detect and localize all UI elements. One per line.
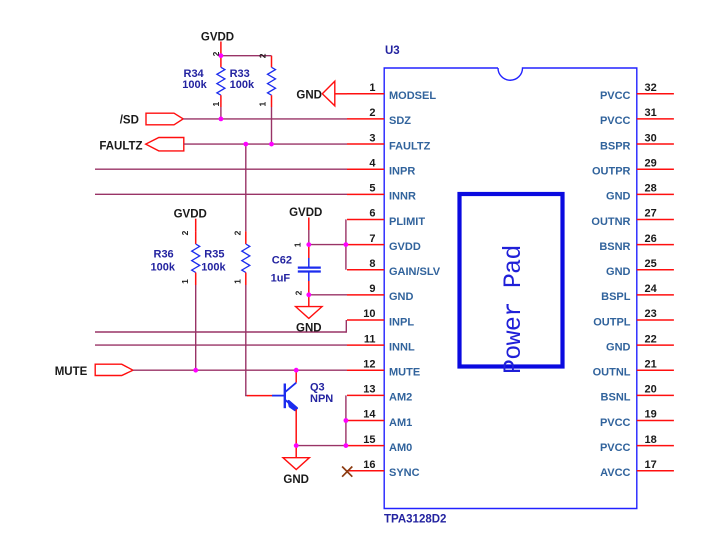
- svg-text:AVCC: AVCC: [600, 467, 630, 479]
- svg-text:18: 18: [645, 434, 657, 446]
- wire FAULTZ net down to R35: [245, 144, 247, 231]
- svg-text:SYNC: SYNC: [389, 467, 420, 479]
- power pad thermal box: [460, 194, 563, 367]
- svg-text:GVDD: GVDD: [201, 31, 234, 43]
- pin 2 SDZ (left): [347, 107, 411, 127]
- wire Q3 collector to MUTE net: [295, 370, 297, 383]
- svg-text:Q3: Q3: [310, 382, 325, 394]
- pin 4 INPR (left): [347, 157, 415, 177]
- wire bracket pins 13,14 down: [345, 395, 347, 445]
- wire net FAULTZ: [184, 143, 347, 145]
- svg-text:100k: 100k: [201, 261, 226, 273]
- svg-text:2: 2: [180, 230, 190, 235]
- junction pin14 bracket: [344, 418, 349, 423]
- svg-text:MUTE: MUTE: [55, 366, 88, 378]
- power pad label: [499, 245, 528, 374]
- pin 7 GVDD (left): [347, 233, 421, 253]
- pin 22 GND (right): [606, 333, 674, 353]
- refdes U3: [385, 45, 400, 57]
- svg-text:GAIN/SLV: GAIN/SLV: [389, 266, 441, 278]
- svg-text:GND: GND: [606, 341, 631, 353]
- svg-text:C62: C62: [272, 255, 292, 267]
- pin 13 AM2 (left): [347, 384, 412, 404]
- resistor R33 100k: [230, 53, 276, 107]
- svg-text:OUTPL: OUTPL: [593, 316, 631, 328]
- wire net MUTE: [133, 369, 347, 371]
- svg-text:INPR: INPR: [389, 165, 415, 177]
- pin 6 PLIMIT (left): [347, 208, 425, 228]
- svg-text:30: 30: [645, 132, 657, 144]
- svg-text:21: 21: [645, 358, 657, 370]
- port MUTE: [55, 364, 133, 378]
- svg-text:PVCC: PVCC: [600, 442, 631, 454]
- pin 10 INPL (left): [347, 308, 414, 328]
- svg-text:INNL: INNL: [389, 341, 415, 353]
- svg-text:20: 20: [645, 384, 657, 396]
- svg-text:GVDD: GVDD: [389, 241, 421, 253]
- svg-text:FAULTZ: FAULTZ: [389, 140, 431, 152]
- svg-text:5: 5: [369, 183, 375, 195]
- wire R35 bottom down to Q3 base: [245, 285, 247, 396]
- transistor Q3 NPN: [247, 382, 333, 410]
- svg-text:2: 2: [232, 230, 242, 235]
- svg-text:GND: GND: [296, 90, 322, 102]
- svg-text:13: 13: [363, 384, 375, 396]
- svg-text:2: 2: [257, 53, 267, 58]
- svg-text:3: 3: [369, 132, 375, 144]
- junction Q3 emitter/GND: [294, 443, 299, 448]
- svg-text:2: 2: [369, 107, 375, 119]
- pin 26 BSNR (right): [599, 233, 674, 253]
- pin 17 AVCC (right): [600, 459, 674, 479]
- svg-text:32: 32: [645, 82, 657, 94]
- svg-text:Power Pad: Power Pad: [499, 245, 528, 374]
- junction C62 bottom/GND: [306, 292, 311, 297]
- svg-text:10: 10: [363, 308, 375, 320]
- wire R36 bottom to MUTE net: [195, 285, 197, 370]
- pin 31 PVCC (right): [600, 107, 674, 127]
- pin 30 BSPR (right): [600, 132, 674, 152]
- svg-text:FAULTZ: FAULTZ: [99, 141, 142, 153]
- svg-text:NPN: NPN: [310, 393, 333, 405]
- svg-text:6: 6: [369, 208, 375, 220]
- svg-text:GVDD: GVDD: [289, 207, 322, 219]
- svg-text:GND: GND: [389, 291, 414, 303]
- wire net INNL: [95, 344, 347, 346]
- junction FAULTZ/R35: [243, 142, 248, 147]
- pin 24 BSPL (right): [601, 283, 674, 303]
- pin 28 GND (right): [606, 183, 674, 203]
- svg-text:4: 4: [369, 157, 376, 169]
- svg-text:16: 16: [363, 459, 375, 471]
- svg-text:PLIMIT: PLIMIT: [389, 216, 425, 228]
- svg-text:7: 7: [369, 233, 375, 245]
- junction pin7 bracket: [344, 242, 349, 247]
- pin 32 PVCC (right): [600, 82, 674, 102]
- svg-text:1: 1: [211, 102, 221, 107]
- wire Q3 emitter lead: [295, 409, 297, 445]
- svg-text:8: 8: [369, 258, 375, 270]
- junction GVDD/C62 top: [306, 242, 311, 247]
- power symbol GVDD (R36): [174, 209, 207, 232]
- port GND (to pin 1): [296, 81, 334, 106]
- ground below Q3: [283, 446, 309, 486]
- pin 11 INNL (left): [347, 333, 415, 353]
- svg-text:GND: GND: [283, 474, 309, 486]
- svg-text:/SD: /SD: [120, 114, 139, 126]
- pin 5 INNR (left): [347, 183, 416, 203]
- svg-text:17: 17: [645, 459, 657, 471]
- resistor R35 100k: [201, 230, 250, 285]
- svg-text:15: 15: [363, 434, 375, 446]
- port FAULTZ: [99, 138, 183, 153]
- power symbol GVDD (top): [201, 31, 234, 55]
- pin 8 GAIN/SLV (left): [347, 258, 441, 278]
- port /SD: [120, 113, 183, 126]
- wire net INNR: [95, 193, 347, 195]
- svg-text:PVCC: PVCC: [600, 115, 631, 127]
- wire C62 node to pins 6-8 bracket: [309, 244, 346, 246]
- wire net SDZ: [183, 118, 347, 120]
- pin 21 OUTNL (right): [593, 358, 674, 378]
- pin 9 GND (left): [347, 283, 414, 303]
- no-connect X on pin 16 SYNC: [342, 467, 352, 477]
- svg-text:OUTNL: OUTNL: [593, 367, 631, 379]
- svg-text:AM1: AM1: [389, 417, 412, 429]
- svg-text:23: 23: [645, 308, 657, 320]
- wire net INPL (with jog to pin 10): [95, 320, 346, 333]
- wire GVDD to C62 top node: [308, 230, 310, 245]
- wire R34 bottom to SDZ net: [220, 107, 222, 119]
- svg-text:TPA3128D2: TPA3128D2: [384, 514, 446, 526]
- capacitor C62 1uF: [271, 242, 321, 295]
- pin 16 SYNC (left): [347, 459, 420, 479]
- svg-text:U3: U3: [385, 45, 400, 57]
- pin 3 FAULTZ (left): [347, 132, 431, 152]
- junction Q3 collector/MUTE: [294, 368, 299, 373]
- pin 15 AM0 (left): [347, 434, 412, 454]
- junction R36/MUTE: [193, 368, 198, 373]
- svg-text:AM2: AM2: [389, 392, 412, 404]
- svg-text:PVCC: PVCC: [600, 90, 631, 102]
- junction GVDD/R34/R33: [219, 53, 224, 58]
- op-amp-style IC U3 TPA3128D2 body: [384, 68, 637, 509]
- wire emitter to pin 15: [296, 445, 347, 447]
- resistor R36 100k: [151, 230, 200, 285]
- svg-text:R36: R36: [154, 249, 174, 261]
- svg-text:11: 11: [364, 333, 376, 345]
- svg-text:29: 29: [645, 157, 657, 169]
- svg-text:1: 1: [369, 82, 375, 94]
- pin 19 PVCC (right): [600, 409, 674, 429]
- svg-text:BSNL: BSNL: [601, 392, 631, 404]
- ground below C62: [296, 295, 322, 335]
- svg-text:BSNR: BSNR: [599, 241, 630, 253]
- svg-text:12: 12: [363, 358, 375, 370]
- svg-text:1uF: 1uF: [271, 273, 291, 285]
- wire R34 top to R33 top: [221, 55, 272, 57]
- junction R34/SDZ: [219, 117, 224, 122]
- svg-text:25: 25: [645, 258, 657, 270]
- svg-text:19: 19: [645, 409, 657, 421]
- svg-text:R35: R35: [204, 249, 224, 261]
- pin 1 MODSEL (left): [347, 82, 436, 102]
- svg-text:MODSEL: MODSEL: [389, 90, 436, 102]
- pin 14 AM1 (left): [347, 409, 412, 429]
- svg-text:PVCC: PVCC: [600, 417, 631, 429]
- svg-text:GND: GND: [606, 191, 631, 203]
- svg-text:1: 1: [180, 279, 190, 284]
- value label TPA3128D2: [384, 514, 446, 526]
- wire R33 bottom to FAULTZ net: [271, 107, 273, 144]
- svg-text:31: 31: [645, 107, 657, 119]
- svg-text:GND: GND: [296, 323, 322, 335]
- pin 25 GND (right): [606, 258, 674, 278]
- pin 29 OUTPR (right): [592, 157, 674, 177]
- pin 20 BSNL (right): [601, 384, 674, 404]
- svg-text:BSPL: BSPL: [601, 291, 631, 303]
- svg-text:27: 27: [645, 208, 657, 220]
- wire C62 bottom to pin 9: [309, 294, 347, 296]
- svg-text:INPL: INPL: [389, 316, 414, 328]
- svg-text:28: 28: [645, 183, 657, 195]
- junction R33/FAULTZ: [269, 142, 274, 147]
- svg-text:2: 2: [293, 290, 303, 295]
- svg-text:1: 1: [232, 279, 242, 284]
- svg-text:OUTNR: OUTNR: [591, 216, 630, 228]
- resistor R34 100k: [182, 51, 225, 107]
- pin 23 OUTPL (right): [593, 308, 674, 328]
- svg-text:GVDD: GVDD: [174, 209, 207, 221]
- svg-text:1: 1: [257, 102, 267, 107]
- svg-text:14: 14: [363, 409, 376, 421]
- svg-text:100k: 100k: [182, 79, 207, 91]
- svg-text:1: 1: [293, 242, 303, 247]
- power symbol GVDD (C62): [289, 207, 322, 230]
- pin 18 PVCC (right): [600, 434, 674, 454]
- svg-text:24: 24: [645, 283, 658, 295]
- pin 12 MUTE (left): [347, 358, 420, 378]
- svg-text:26: 26: [645, 233, 657, 245]
- pin 27 OUTNR (right): [591, 208, 674, 228]
- svg-text:GND: GND: [606, 266, 631, 278]
- wire GND port to pin 1: [335, 93, 347, 95]
- svg-text:9: 9: [369, 283, 375, 295]
- svg-text:BSPR: BSPR: [600, 140, 631, 152]
- svg-text:100k: 100k: [151, 261, 176, 273]
- wire bracket pins 6,7,8: [345, 219, 347, 269]
- svg-text:SDZ: SDZ: [389, 115, 411, 127]
- svg-text:22: 22: [645, 333, 657, 345]
- svg-text:100k: 100k: [230, 79, 255, 91]
- svg-text:INNR: INNR: [389, 191, 416, 203]
- svg-text:AM0: AM0: [389, 442, 412, 454]
- wire net INPR: [95, 168, 347, 170]
- svg-text:OUTPR: OUTPR: [592, 165, 631, 177]
- svg-text:MUTE: MUTE: [389, 367, 420, 379]
- junction pin15 wire: [344, 443, 349, 448]
